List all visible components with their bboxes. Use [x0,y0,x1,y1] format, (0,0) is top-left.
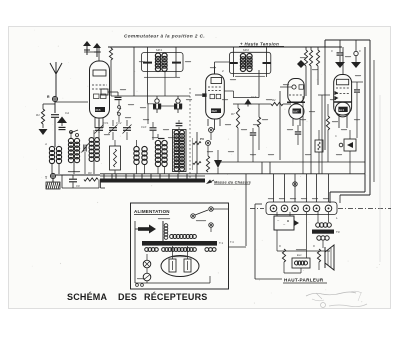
svg-text:R7: R7 [231,112,235,116]
svg-text:DES: DES [118,292,137,302]
svg-text:C10: C10 [141,125,147,129]
svg-text:R: R [279,244,281,248]
svg-text:R2: R2 [272,98,276,102]
svg-text:MF1: MF1 [156,48,162,52]
svg-text:EL3: EL3 [339,108,345,112]
svg-text:C: C [335,134,337,138]
svg-text:A: A [44,142,47,146]
svg-text:MF2: MF2 [243,48,249,52]
svg-text:CA: CA [65,111,69,115]
svg-text:6E8: 6E8 [212,109,218,113]
svg-text:C17: C17 [251,95,257,99]
svg-text:CV1: CV1 [103,121,109,125]
svg-text:R1: R1 [36,113,40,117]
svg-text:ALIMENTATION: ALIMENTATION [134,209,170,214]
svg-text:R: R [313,244,315,248]
svg-text:T3: T3 [336,230,340,234]
svg-text:HAUT-PARLEUR: HAUT-PARLEUR [284,278,324,283]
svg-text:Commutateur à la position 2 C.: Commutateur à la position 2 C. [124,34,205,39]
svg-text:T.1: T.1 [219,241,223,245]
svg-text:+ Haute Tension: + Haute Tension [240,42,279,47]
svg-text:SCHÉMA: SCHÉMA [67,292,108,302]
svg-text:6M7: 6M7 [293,110,299,114]
svg-text:T.4: T.4 [230,240,234,244]
svg-text:6K8: 6K8 [96,108,101,112]
svg-text:RÉCEPTEURS: RÉCEPTEURS [144,292,208,302]
svg-text:R9: R9 [88,171,92,175]
svg-text:PU: PU [200,137,204,141]
svg-text:C9: C9 [76,184,80,188]
svg-text:Exc: Exc [297,253,302,257]
svg-text:CV2: CV2 [116,121,122,125]
